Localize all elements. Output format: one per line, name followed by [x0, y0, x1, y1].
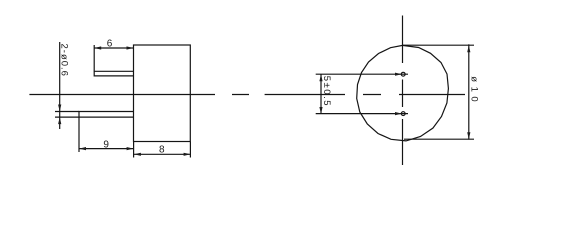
arrowhead dim8 left — [134, 153, 141, 156]
arrowhead hole leader H2 — [395, 112, 402, 115]
body left edge extension below body — [133, 142, 135, 158]
body right edge extension below body — [189, 142, 191, 158]
dimension 9 line — [79, 148, 134, 150]
dimension 8 line — [134, 153, 191, 155]
top lead (pin) side view — [94, 71, 133, 76]
arrowhead Φ10 top — [467, 45, 470, 52]
wire horizontal center line dash 3 (inside circle) — [363, 94, 381, 96]
dimension 2-Φ0.6 extension tick top — [55, 111, 79, 113]
arrowhead hole leader H1 — [395, 73, 402, 76]
hole H2 (bottom pin hole) — [401, 112, 405, 116]
arrowhead dim8 right — [184, 153, 191, 156]
dimension Φ10 extension line bottom — [404, 138, 474, 140]
wire horizontal center line (long solid segment through side view) — [29, 94, 215, 96]
dimension 9 extension line — [78, 117, 80, 152]
body outline rectangle (side view) — [134, 45, 191, 142]
dimension 2-Φ0.6 leader line — [59, 42, 61, 129]
arrowhead dim9 right — [127, 147, 134, 150]
hole H1 leader line (top) — [316, 73, 408, 75]
dimension 6 extension line — [93, 45, 95, 71]
bottom lead (pin) side view — [79, 112, 134, 118]
dimension Φ10 line — [468, 44, 470, 139]
wire horizontal center line dash 2 (through 5±0.5 dimension) — [265, 94, 345, 96]
hole H2 leader line (bottom) — [316, 113, 408, 115]
arrowhead 0.6 up (below pin) — [58, 117, 61, 124]
svg-text:8: 8 — [159, 144, 165, 155]
vertical center line of circle, upper segment — [402, 16, 404, 64]
wire horizontal center line dash 1 — [232, 94, 249, 96]
wire horizontal center line dash 4 (to Φ10 dimension) — [399, 94, 465, 96]
vertical center line of circle, lower segment — [402, 119, 404, 165]
arrowhead 5±0.5 top — [319, 74, 322, 81]
hole H1 (top pin hole) — [401, 72, 405, 76]
dimension 2-Φ0.6 extension tick bottom — [55, 116, 79, 118]
vertical center line of circle, middle segment — [402, 80, 404, 108]
arrowhead 5±0.5 bottom — [319, 107, 322, 114]
dimension 5±0.5 line — [320, 74, 322, 114]
dimension Φ10 extension line top — [403, 44, 474, 46]
arrowhead dim6 right — [127, 46, 134, 49]
arrowhead dim6 left — [94, 46, 101, 49]
svg-text:6: 6 — [107, 38, 113, 49]
svg-text:2-ø0.6: 2-ø0.6 — [59, 44, 70, 77]
arrowhead dim9 left — [79, 147, 86, 150]
dimension 6 line — [94, 47, 133, 49]
svg-text:ø10: ø10 — [469, 76, 480, 106]
svg-text:5±0.5: 5±0.5 — [321, 76, 332, 107]
arrowhead 0.6 down (above pin) — [58, 105, 61, 112]
circle outline of buzzer (front view, faceted polygon) — [357, 45, 449, 140]
arrowhead Φ10 bottom — [467, 132, 470, 139]
svg-text:9: 9 — [103, 139, 109, 150]
